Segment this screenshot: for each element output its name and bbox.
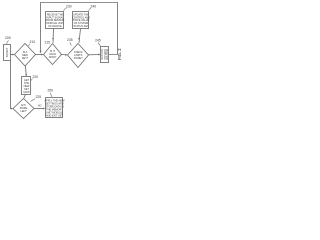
box R (right small rectangle) [101,47,109,63]
diamond D3 [68,44,89,68]
arrowhead into D1 [12,54,14,56]
wire L to D1 [11,54,14,56]
leader T1 top-right [64,8,67,11]
leader D4 top-right [31,99,36,102]
wire T1 down to D2 [52,29,55,43]
wire arrowhead of feedback loop [40,51,42,54]
arrowhead into D3 [65,54,67,56]
svg-text:LEFT: LEFT [20,110,27,113]
leader D3 top-left [70,42,72,45]
svg-text:DONE?: DONE? [74,57,83,60]
svg-text:240: 240 [91,5,97,9]
box B (bottom box) [46,98,63,118]
svg-text:ROUTINE: ROUTINE [106,49,109,61]
box T2 [73,12,89,29]
wire M down to D4 [24,95,26,98]
svg-text:OF DEVICE: OF DEVICE [48,25,62,28]
arrowhead into D2 [41,54,43,56]
svg-text:NOW: NOW [23,91,30,94]
svg-text:SET?: SET? [22,57,29,60]
svg-text:FIG. 2: FIG. 2 [117,48,122,60]
wire D1 down to M [25,66,28,76]
leader R top-left [98,43,101,47]
wire D1 to D2 [36,54,43,56]
svg-text:245: 245 [95,39,101,43]
wire D3 to R [89,54,100,56]
diamond D4 (bottom) [13,99,34,119]
box T1 [46,12,64,29]
leader B top [50,93,52,97]
wire D2 to D3 [62,54,67,56]
leader for label above L [7,41,9,45]
svg-text:AND EXIT SET: AND EXIT SET [46,115,64,118]
svg-text:NOW?: NOW? [49,56,57,59]
svg-text:250: 250 [48,89,54,93]
arrowhead T2-D3 [78,38,80,40]
svg-text:225: 225 [36,95,42,99]
wire feedback loop (box R right to junction before D2) [41,3,118,55]
svg-text:220: 220 [33,75,39,79]
wire D4 to B [34,108,45,110]
arrowhead into R [98,54,100,56]
text in R (rotated) [101,49,109,61]
arrowhead into D4 left [11,108,13,110]
arrowhead into B [43,108,45,110]
arrowhead D1-M [25,74,27,76]
svg-text:210: 210 [30,40,36,44]
diamond D2 [44,44,62,65]
svg-text:205: 205 [5,36,11,40]
svg-text:STATUS SET: STATUS SET [73,25,89,28]
svg-text:215: 215 [45,41,51,45]
leader D1 top-right [28,44,31,47]
svg-text:NO: NO [38,103,42,107]
svg-text:230: 230 [66,5,72,9]
wire T2 down to D3 [79,29,81,43]
box L (left small rectangle) [4,45,11,61]
leader M right [31,79,33,81]
diamond D1 [15,44,36,67]
svg-text:START: START [5,48,9,58]
svg-text:235: 235 [67,38,73,42]
box M (narrow middle box) [22,77,31,95]
arrowhead T1-D2 [52,38,54,40]
leader T2 top-right [89,8,92,11]
wire left drop from L to D4 [11,61,13,109]
